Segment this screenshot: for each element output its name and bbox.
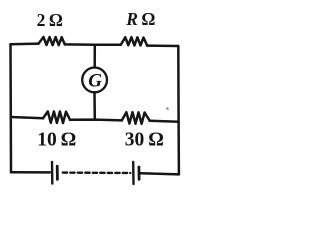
wire top-left segment	[11, 42, 39, 45]
wire bottom-right segment	[141, 173, 179, 174]
wire left vertical	[9, 44, 12, 172]
svg-text:G: G	[88, 71, 102, 92]
svg-text:10 Ω: 10 Ω	[37, 130, 76, 151]
wire top-right segment	[147, 44, 178, 47]
wire right vertical	[177, 46, 180, 174]
wire dashed segment between cells	[63, 171, 131, 174]
battery cell B2 long plate	[132, 162, 135, 184]
wire middle-right segment	[150, 121, 179, 122]
wire galvanometer bottom lead	[93, 92, 96, 119]
wire bottom-left segment	[11, 171, 50, 174]
resistor R3 (10 ohm zigzag)	[43, 111, 70, 123]
battery cell B2 short plate	[137, 167, 140, 179]
wire middle-left segment	[11, 117, 43, 118]
battery cell B1 long plate	[51, 162, 54, 184]
resistor R4 (30 ohm zigzag)	[122, 112, 150, 124]
svg-text:30 Ω: 30 Ω	[125, 130, 164, 151]
wire galvanometer top lead	[93, 45, 96, 68]
scan speck	[166, 107, 169, 110]
resistor R2 (R ohm zigzag)	[121, 37, 147, 45]
resistor R1 (2 ohm zigzag)	[39, 37, 65, 45]
svg-text:2 Ω: 2 Ω	[37, 10, 63, 30]
svg-text:R Ω: R Ω	[125, 9, 155, 29]
galvanometer G circle	[82, 68, 107, 93]
wire middle-center segment	[70, 118, 122, 121]
battery cell B1 short plate	[56, 166, 59, 179]
wire top-middle segment	[65, 43, 121, 46]
